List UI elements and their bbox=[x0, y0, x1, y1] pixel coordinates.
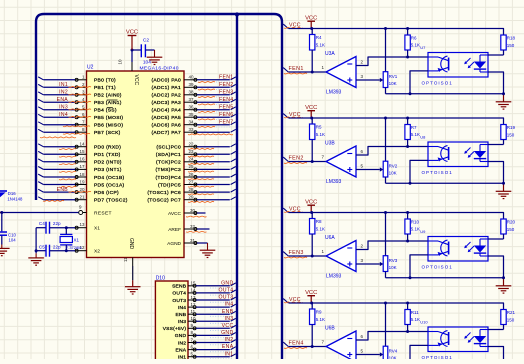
svg-text:32: 32 bbox=[190, 224, 196, 229]
svg-text:13: 13 bbox=[79, 222, 85, 227]
bus entry PD3 bbox=[38, 167, 43, 170]
svg-text:R18: R18 bbox=[507, 36, 516, 41]
pin 12 X2 of U2 bbox=[75, 245, 100, 254]
error squiggle PD4 bbox=[59, 178, 76, 181]
svg-text:5.1K: 5.1K bbox=[316, 43, 325, 48]
ground stage 3 bbox=[496, 278, 512, 293]
error squiggle PA7 bbox=[188, 133, 233, 136]
svg-text:OPTOISO1: OPTOISO1 bbox=[422, 355, 453, 359]
capacitor C4 bbox=[36, 221, 75, 234]
svg-text:RV4: RV4 bbox=[389, 349, 398, 354]
svg-text:PB1 (T1): PB1 (T1) bbox=[94, 85, 116, 91]
bus entry PD6 bbox=[38, 189, 43, 192]
svg-text:(ADC4) PA4: (ADC4) PA4 bbox=[151, 108, 181, 114]
optocoupler U8 OPTOISO1 bbox=[428, 142, 488, 167]
svg-text:26: 26 bbox=[188, 172, 194, 177]
svg-text:OPTOISO1: OPTOISO1 bbox=[422, 264, 453, 269]
pin number 3 (non-inverting) bbox=[361, 258, 364, 263]
pin number 1 (output) bbox=[322, 65, 325, 70]
svg-text:12: 12 bbox=[191, 302, 197, 307]
svg-text:PB2 (AIN0): PB2 (AIN0) bbox=[94, 93, 122, 99]
svg-text:PB6 (MISO): PB6 (MISO) bbox=[94, 123, 123, 129]
svg-text:31: 31 bbox=[190, 238, 196, 243]
error squiggle PD3 bbox=[59, 170, 76, 173]
svg-text:R7: R7 bbox=[411, 125, 417, 130]
wire PA4 row bbox=[197, 109, 230, 111]
svg-text:U7: U7 bbox=[420, 45, 426, 50]
svg-text:5.1K: 5.1K bbox=[411, 43, 420, 48]
bus entry PD7 bbox=[38, 197, 43, 200]
svg-text:24: 24 bbox=[188, 157, 194, 162]
pin 1 PB0 (T0) of U2 (left) bbox=[75, 75, 116, 84]
svg-text:C4: C4 bbox=[39, 221, 45, 226]
pin 8 PB7 (SCK) of U2 (left) bbox=[75, 127, 121, 136]
svg-text:13: 13 bbox=[191, 295, 197, 300]
svg-text:10: 10 bbox=[191, 316, 197, 321]
ground U2 GND bbox=[125, 287, 141, 294]
bus entry PC6 bbox=[231, 189, 236, 192]
pin 19 PD5 (OC1A) of U2 (left) bbox=[75, 179, 125, 188]
bus entry PD0 bbox=[38, 144, 43, 147]
wire RV2 bottom to bottom rail bbox=[385, 177, 387, 183]
pin 14 OUT4 of D10 bbox=[172, 288, 196, 297]
svg-text:7.3728M: 7.3728M bbox=[66, 245, 82, 250]
wire R21 to LED anode bbox=[488, 329, 504, 331]
svg-text:U6A: U6A bbox=[325, 235, 335, 241]
svg-text:U3B: U3B bbox=[325, 141, 335, 147]
net label IN3 (D10 row) bbox=[210, 316, 234, 324]
net label VCC stage 1 bbox=[284, 22, 303, 28]
bus entry PB5 bbox=[38, 114, 43, 117]
svg-text:ENA: ENA bbox=[176, 347, 187, 353]
bus entry PA6 bbox=[231, 122, 236, 125]
svg-text:IN4: IN4 bbox=[59, 112, 68, 118]
designator U2 bbox=[87, 65, 94, 71]
wire VCC rail stage 1 bbox=[289, 29, 504, 35]
pin 35 (ADC5) PA5 of U2 (right) bbox=[151, 112, 197, 121]
svg-text:PB3 (AIN1): PB3 (AIN1) bbox=[94, 100, 122, 106]
svg-text:VCC: VCC bbox=[222, 323, 234, 329]
svg-text:ENB: ENB bbox=[57, 187, 69, 193]
wire LED cathode to ground stage 2 bbox=[488, 162, 504, 184]
pin 4 PB3 (AIN1) of U2 (left) bbox=[75, 97, 122, 106]
wire output stage 3 bbox=[289, 255, 327, 257]
bus entry D10 ENA bbox=[231, 347, 236, 350]
svg-text:39: 39 bbox=[188, 82, 194, 87]
wire PC3 row bbox=[197, 168, 230, 170]
net label VCC (D10 row) bbox=[210, 323, 234, 331]
svg-text:U2: U2 bbox=[87, 65, 94, 71]
pin 9 RESET of U2 bbox=[79, 205, 112, 217]
bus entry D10 OUT3 bbox=[231, 297, 236, 300]
ground stage 2 bbox=[496, 183, 512, 198]
svg-text:PD0 (RXD): PD0 (RXD) bbox=[94, 145, 121, 151]
pin 25 (TMS)PC3 of U2 (right) bbox=[156, 164, 198, 173]
net label ENA (D10 row) bbox=[210, 344, 234, 352]
net label FEN1 bbox=[198, 74, 234, 82]
wire PD1 row bbox=[44, 153, 76, 155]
svg-text:FEN1: FEN1 bbox=[219, 74, 233, 80]
svg-text:R20: R20 bbox=[507, 220, 516, 225]
svg-text:104: 104 bbox=[9, 238, 17, 243]
diode D16 1N4148 (partially off-sheet) bbox=[0, 190, 23, 201]
svg-text:150: 150 bbox=[507, 227, 515, 232]
bus entry PA7 bbox=[231, 129, 236, 132]
svg-text:PD3 (INT1): PD3 (INT1) bbox=[94, 167, 122, 173]
svg-text:(TDO)PC4: (TDO)PC4 bbox=[156, 175, 182, 181]
svg-text:RESET: RESET bbox=[94, 210, 112, 216]
svg-text:PB0 (T0): PB0 (T0) bbox=[94, 78, 116, 84]
svg-text:5.1K: 5.1K bbox=[411, 317, 420, 322]
pin 9 VSS(+5V) of D10 bbox=[163, 323, 196, 332]
pin 8 GND of D10 bbox=[175, 330, 196, 339]
wire VCC to RV2 top bbox=[385, 118, 387, 161]
wire PB4 row bbox=[44, 109, 76, 111]
pin 40 (ADC0) PA0 of U2 (right) bbox=[151, 75, 197, 84]
pin number 1 (output) bbox=[322, 249, 325, 254]
svg-text:17: 17 bbox=[79, 164, 85, 169]
svg-text:37: 37 bbox=[188, 97, 194, 102]
label OPTOISO1 stage 1 bbox=[422, 80, 453, 85]
ground AGND bbox=[200, 250, 216, 257]
svg-text:(SDA)PC1: (SDA)PC1 bbox=[156, 152, 181, 158]
resistor R11 5.1K (collector) bbox=[405, 303, 420, 332]
svg-text:10K: 10K bbox=[389, 171, 397, 176]
svg-text:AVCC: AVCC bbox=[168, 211, 182, 217]
bus main (rounded top run) bbox=[36, 14, 282, 359]
svg-text:C2: C2 bbox=[143, 38, 149, 44]
wire emitter to bottom rail stage 2 bbox=[410, 160, 428, 183]
svg-text:R11: R11 bbox=[411, 310, 419, 315]
resistor R6 5.1K (collector) bbox=[405, 29, 420, 58]
svg-text:VSS(+5V): VSS(+5V) bbox=[163, 326, 187, 332]
svg-text:D16: D16 bbox=[8, 191, 16, 196]
svg-text:35: 35 bbox=[188, 112, 194, 117]
pin 26 (TDO)PC4 of U2 (right) bbox=[156, 172, 198, 181]
wire VCC to RV3 top bbox=[385, 213, 387, 256]
svg-text:(TCK)PC2: (TCK)PC2 bbox=[156, 160, 181, 166]
pin number 7 (output) bbox=[322, 339, 325, 344]
svg-text:28: 28 bbox=[188, 187, 194, 192]
error squiggle PC3 bbox=[188, 170, 214, 173]
wire VCC to RV4 top bbox=[385, 303, 387, 346]
svg-text:RV2: RV2 bbox=[389, 164, 398, 169]
error squiggle below PB7 bbox=[40, 136, 76, 139]
svg-text:(SCL)PC0: (SCL)PC0 bbox=[156, 145, 181, 151]
net label OUT4 (D10 row) bbox=[210, 288, 234, 296]
power port VCC (U2) bbox=[126, 30, 138, 50]
svg-text:GND: GND bbox=[128, 238, 134, 250]
pin 11 GND of U2 (bottom) bbox=[123, 257, 133, 266]
svg-text:IN4: IN4 bbox=[225, 302, 234, 308]
wire AREF stub bbox=[186, 229, 210, 232]
resistor R21 150 (LED) bbox=[501, 309, 516, 329]
error squiggle PB6 bbox=[63, 125, 90, 128]
designator U9 (optocoupler) bbox=[420, 229, 426, 234]
net label FEN5 bbox=[198, 104, 234, 112]
svg-text:14: 14 bbox=[191, 288, 197, 293]
svg-text:5.1K: 5.1K bbox=[411, 132, 420, 137]
pin 14 PD0 (RXD) of U2 (left) bbox=[75, 142, 121, 151]
net label ENA bbox=[57, 97, 91, 103]
pin 7 IN2 of D10 bbox=[178, 337, 196, 346]
svg-text:PD2 (INT0): PD2 (INT0) bbox=[94, 160, 122, 166]
pin 31 AGND of U2 bbox=[167, 238, 197, 247]
pin 10 IN3 of D10 bbox=[178, 316, 196, 325]
pin 22 (SCL)PC0 of U2 (right) bbox=[156, 142, 197, 151]
error squiggle PD2 bbox=[59, 163, 76, 166]
net label VCC stage 3 bbox=[284, 206, 303, 212]
svg-text:PD5 (OC1A): PD5 (OC1A) bbox=[94, 182, 125, 188]
net label FEN4 bbox=[198, 97, 234, 105]
error squiggle PB7 bbox=[63, 132, 90, 135]
svg-text:(TDI)PC5: (TDI)PC5 bbox=[158, 182, 181, 188]
svg-text:R9: R9 bbox=[316, 310, 322, 315]
wire PD7 row bbox=[44, 199, 76, 201]
svg-text:U10: U10 bbox=[420, 319, 428, 324]
pin 34 (ADC6) PA6 of U2 (right) bbox=[151, 120, 197, 129]
wire R18 to LED anode bbox=[488, 54, 504, 56]
bus entry VCC stage 2 bbox=[283, 114, 288, 118]
wire PB6 row bbox=[44, 124, 76, 126]
wire LED cathode to ground stage 4 bbox=[488, 347, 504, 364]
bus entry PD4 bbox=[38, 174, 43, 177]
bus entry PC7 bbox=[231, 197, 236, 200]
pin 28 (TOSC1) PC6 of U2 (right) bbox=[147, 187, 197, 196]
IC U2 MEGA16-DIP40 body bbox=[87, 71, 185, 258]
wire PD4 row bbox=[44, 176, 76, 178]
pin 32 AREF of U2 bbox=[168, 224, 197, 233]
svg-text:5.1K: 5.1K bbox=[316, 132, 325, 137]
capacitor C5 bbox=[36, 244, 75, 256]
pin 27 (TDI)PC5 of U2 (right) bbox=[158, 179, 197, 188]
wire inverting input to collector node stage 3 bbox=[356, 241, 428, 250]
op-amp U6A LM393 bbox=[325, 235, 356, 280]
svg-text:ENA: ENA bbox=[57, 97, 69, 103]
wire RV3 bottom to bottom rail bbox=[385, 272, 387, 278]
pin 13 X1 of U2 bbox=[75, 222, 100, 231]
svg-text:IN2: IN2 bbox=[225, 337, 234, 343]
svg-text:23: 23 bbox=[188, 149, 194, 154]
svg-text:21: 21 bbox=[79, 195, 85, 200]
error squiggle PC5 bbox=[188, 185, 214, 188]
bus entry VCC stage 3 bbox=[283, 208, 288, 212]
pin name VCC vertical bbox=[133, 75, 139, 86]
svg-text:22p: 22p bbox=[53, 221, 61, 226]
svg-text:150: 150 bbox=[507, 318, 515, 323]
bus entry D10 IN4 bbox=[231, 304, 236, 307]
pin number 6 (inverting) bbox=[361, 334, 364, 339]
net label ENB (D10 row) bbox=[210, 309, 234, 317]
svg-text:11: 11 bbox=[123, 257, 128, 262]
optocoupler U9 OPTOISO1 bbox=[428, 237, 488, 262]
svg-text:FEN3: FEN3 bbox=[219, 89, 233, 95]
bus entry PD2 bbox=[38, 159, 43, 162]
bus entry D10 OUT4 bbox=[231, 290, 236, 293]
svg-text:GND: GND bbox=[221, 330, 233, 336]
wire PC2 row bbox=[197, 161, 230, 163]
wire PB0 row bbox=[44, 79, 76, 81]
wire PB1 row bbox=[44, 86, 76, 88]
svg-text:SENB: SENB bbox=[172, 284, 186, 290]
svg-text:IN1: IN1 bbox=[225, 351, 234, 357]
wire D10 ENA row bbox=[196, 349, 230, 351]
pin 6 PB5 (MOSI) of U2 (left) bbox=[75, 112, 123, 121]
pin 17 PD3 (INT1) of U2 (left) bbox=[75, 164, 122, 173]
svg-text:R5: R5 bbox=[316, 125, 322, 130]
wire D10 VSS(+5V) row bbox=[196, 327, 230, 329]
svg-text:(TMS)PC3: (TMS)PC3 bbox=[156, 167, 182, 173]
wire PA1 row bbox=[197, 86, 230, 88]
power port VCC stage 2 bbox=[305, 105, 317, 118]
wire C10 to ground bbox=[1, 236, 3, 249]
bus branch (vertical x=237) bbox=[235, 12, 239, 359]
svg-text:U6B: U6B bbox=[325, 326, 335, 332]
error squiggle PC2 bbox=[188, 163, 214, 166]
wire output stage 2 bbox=[289, 161, 327, 163]
pin number 3 (non-inverting) bbox=[361, 74, 364, 79]
svg-text:PD7 (TOSC2): PD7 (TOSC2) bbox=[94, 198, 128, 204]
pin number 2 (inverting) bbox=[361, 243, 364, 248]
svg-text:22p: 22p bbox=[53, 244, 61, 249]
wire PB2 row bbox=[44, 94, 76, 96]
svg-text:(ADC3) PA3: (ADC3) PA3 bbox=[151, 100, 181, 106]
svg-text:PB7 (SCK): PB7 (SCK) bbox=[94, 130, 121, 136]
bus entry PC4 bbox=[231, 174, 236, 177]
wire inverting input to collector node stage 1 bbox=[356, 57, 428, 66]
wire GND pin down bbox=[132, 266, 134, 287]
label X1 bbox=[74, 237, 80, 242]
bus entry FEN4 bbox=[283, 342, 288, 346]
wire PA5 row bbox=[197, 116, 230, 118]
svg-text:1N4148: 1N4148 bbox=[7, 197, 23, 202]
resistor R8 5.1K (pull-up) bbox=[310, 213, 326, 257]
svg-text:X1: X1 bbox=[94, 226, 100, 232]
svg-text:R6: R6 bbox=[411, 35, 417, 40]
error squiggle PC0 bbox=[188, 147, 214, 150]
pin 21 PD7 (TOSC2) of U2 (left) bbox=[75, 195, 128, 204]
bus entry PA3 bbox=[231, 99, 236, 102]
pin 10 VCC of U2 (top) bbox=[118, 59, 133, 71]
label OPTOISO1 stage 3 bbox=[422, 264, 453, 269]
resistor R5 5.1K (pull-up) bbox=[310, 118, 326, 162]
net label FEN6 bbox=[198, 112, 234, 120]
wire PC1 row bbox=[197, 153, 230, 155]
pin number 5 (non-inverting) bbox=[361, 163, 364, 168]
wire D10 ENB row bbox=[196, 313, 230, 315]
designator U7 (optocoupler) bbox=[420, 45, 426, 50]
svg-text:25: 25 bbox=[188, 164, 194, 169]
svg-text:VCC: VCC bbox=[133, 75, 139, 86]
pin 30 AVCC of U2 bbox=[168, 208, 197, 217]
pin 2 PB1 (T1) of U2 (left) bbox=[75, 82, 116, 91]
svg-text:5.1K: 5.1K bbox=[316, 227, 325, 232]
wire PA3 row bbox=[197, 101, 230, 103]
wire R20 to LED anode bbox=[488, 238, 504, 240]
bus entry PA0 bbox=[231, 77, 236, 80]
wire D10 IN2 row bbox=[196, 342, 230, 344]
wire bottom rail stage 1 bbox=[386, 93, 504, 95]
bus entry FEN3 bbox=[283, 252, 288, 256]
bus entry PC0 bbox=[231, 144, 236, 147]
svg-text:OUT3: OUT3 bbox=[218, 295, 233, 301]
svg-text:C5: C5 bbox=[39, 244, 45, 249]
net label GND (D10 row) bbox=[210, 280, 234, 288]
bus entry VCC stage 4 bbox=[283, 299, 288, 303]
bus entry D10 ENB bbox=[231, 311, 236, 314]
pin 11 ENB of D10 bbox=[176, 309, 197, 318]
net label IN4 (D10 row) bbox=[210, 302, 234, 310]
svg-text:OUT3: OUT3 bbox=[172, 298, 186, 304]
svg-text:R4: R4 bbox=[316, 35, 322, 40]
junctions stage 2 bbox=[310, 117, 505, 185]
svg-text:FEN2: FEN2 bbox=[289, 155, 304, 161]
wire PB5 row bbox=[44, 116, 76, 118]
wire D10 IN3 row bbox=[196, 320, 230, 322]
wire non-inverting input to RV1 wiper bbox=[356, 78, 383, 82]
label 104 bbox=[143, 60, 151, 66]
designator D10 bbox=[156, 276, 165, 282]
svg-text:FEN4: FEN4 bbox=[289, 340, 304, 346]
error squiggle PC1 bbox=[188, 155, 214, 158]
op-amp U3B LM393 bbox=[325, 141, 356, 186]
svg-text:U8: U8 bbox=[420, 134, 426, 139]
svg-text:10K: 10K bbox=[389, 265, 397, 270]
wire crystal left leg bbox=[35, 228, 38, 258]
svg-text:29: 29 bbox=[188, 195, 194, 200]
pin 5 IN1 of D10 bbox=[178, 352, 196, 361]
svg-text:IN3: IN3 bbox=[225, 316, 234, 322]
error squiggle PD0 bbox=[59, 148, 76, 151]
wire non-inverting input to RV4 wiper bbox=[356, 352, 383, 356]
potentiometer RV4 10K bbox=[383, 346, 398, 362]
pin 36 (ADC4) PA4 of U2 (right) bbox=[151, 105, 197, 114]
wire emitter to bottom rail stage 4 bbox=[410, 345, 428, 364]
error squiggle PD5 bbox=[59, 185, 76, 188]
pin 20 PD6 (ICP) of U2 (left) bbox=[75, 187, 119, 196]
net label IN2 bbox=[59, 90, 91, 96]
svg-text:OUT4: OUT4 bbox=[172, 291, 186, 297]
pin 23 (SDA)PC1 of U2 (right) bbox=[156, 149, 197, 158]
wire VCC rail stage 4 bbox=[289, 303, 504, 309]
svg-text:R10: R10 bbox=[411, 219, 420, 224]
svg-text:RV3: RV3 bbox=[389, 258, 398, 263]
pin 29 (TOSC2) PC7 of U2 (right) bbox=[147, 195, 197, 204]
pin 16 PD2 (INT0) of U2 (left) bbox=[75, 157, 122, 166]
net label VCC stage 4 bbox=[284, 297, 303, 303]
bus entry PB3 bbox=[38, 99, 43, 102]
svg-text:FEN3: FEN3 bbox=[289, 250, 304, 256]
wire non-inverting input to RV2 wiper bbox=[356, 167, 383, 171]
ground stage 1 bbox=[496, 94, 512, 109]
wire LED cathode to ground stage 3 bbox=[488, 256, 504, 278]
pin number 5 (non-inverting) bbox=[361, 348, 364, 353]
svg-text:19: 19 bbox=[79, 179, 85, 184]
svg-text:PB5 (MOSI): PB5 (MOSI) bbox=[94, 115, 123, 121]
pin name GND vertical (pin 11) bbox=[128, 238, 134, 250]
wire bottom rail stage 3 bbox=[386, 277, 504, 279]
bus entry PB6 bbox=[38, 122, 43, 125]
wire output stage 4 bbox=[289, 346, 327, 348]
bus entry PB7 bbox=[38, 129, 43, 132]
bus entry FEN1 bbox=[283, 68, 288, 72]
svg-text:10K: 10K bbox=[389, 81, 397, 86]
resistor R18 150 (LED) bbox=[501, 35, 516, 55]
svg-text:(ADC1) PA1: (ADC1) PA1 bbox=[151, 85, 181, 91]
pin 6 ENA of D10 bbox=[176, 344, 197, 353]
svg-text:11: 11 bbox=[191, 309, 196, 314]
error squiggle PC7 bbox=[188, 200, 214, 203]
